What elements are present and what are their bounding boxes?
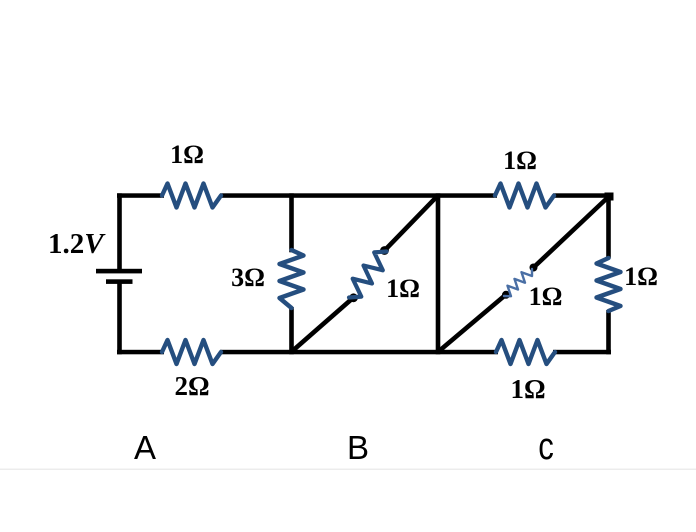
svg-text:1Ω: 1Ω: [503, 146, 537, 175]
wire node2 vertical (B/C boundary): [436, 193, 441, 354]
svg-text:c: c: [538, 426, 554, 468]
resistor R3 3ohm vertical: [280, 250, 304, 308]
wire diagonal B upper: [385, 196, 438, 251]
wire top right: [553, 193, 611, 198]
separator line: [0, 469, 696, 471]
battery V1 plate short: [106, 279, 133, 284]
svg-text:1Ω: 1Ω: [529, 282, 563, 311]
resistor R6 1ohm diagonal C: [504, 269, 532, 296]
wire node1 vertical lower: [289, 307, 294, 354]
svg-text:1Ω: 1Ω: [624, 262, 658, 291]
wire diagonal B lower: [292, 298, 354, 352]
wire top left: [117, 193, 164, 198]
node dot B upper: [380, 246, 389, 255]
wire left vertical upper: [117, 193, 122, 270]
resistor R8 1ohm bottom C: [496, 340, 555, 364]
resistor R4 1ohm diagonal B: [349, 252, 387, 298]
svg-text:1Ω: 1Ω: [170, 140, 204, 169]
wire bottom middle: [220, 350, 498, 355]
svg-text:1.2V: 1.2V: [48, 228, 106, 260]
wire right vertical upper: [606, 193, 611, 258]
wire bottom right: [553, 350, 611, 355]
svg-text:B: B: [347, 429, 369, 466]
node dot B lower: [349, 293, 358, 302]
wire top middle: [220, 193, 497, 198]
wire diagonal C upper: [534, 197, 609, 268]
svg-text:3Ω: 3Ω: [231, 263, 265, 292]
svg-text:1Ω: 1Ω: [386, 274, 420, 303]
corner dot C top right: [605, 193, 614, 201]
resistor R5 1ohm top C: [495, 184, 554, 208]
node dot C lower: [502, 291, 510, 299]
resistor R7 1ohm right vertical: [597, 258, 621, 311]
resistor R2 2ohm bottom-left: [162, 340, 221, 364]
wire right vertical lower: [606, 310, 611, 354]
wire diagonal C lower: [439, 295, 507, 352]
svg-text:1Ω: 1Ω: [510, 374, 545, 404]
svg-text:2Ω: 2Ω: [174, 371, 209, 401]
node dot C upper: [530, 264, 538, 272]
wire bottom left: [117, 350, 164, 355]
wire node1 vertical upper (A/B boundary): [289, 193, 294, 252]
wire left vertical lower: [117, 284, 122, 355]
svg-text:A: A: [134, 429, 156, 466]
resistor R1 1ohm top-left: [162, 184, 221, 208]
battery V1 plate long: [96, 269, 142, 274]
